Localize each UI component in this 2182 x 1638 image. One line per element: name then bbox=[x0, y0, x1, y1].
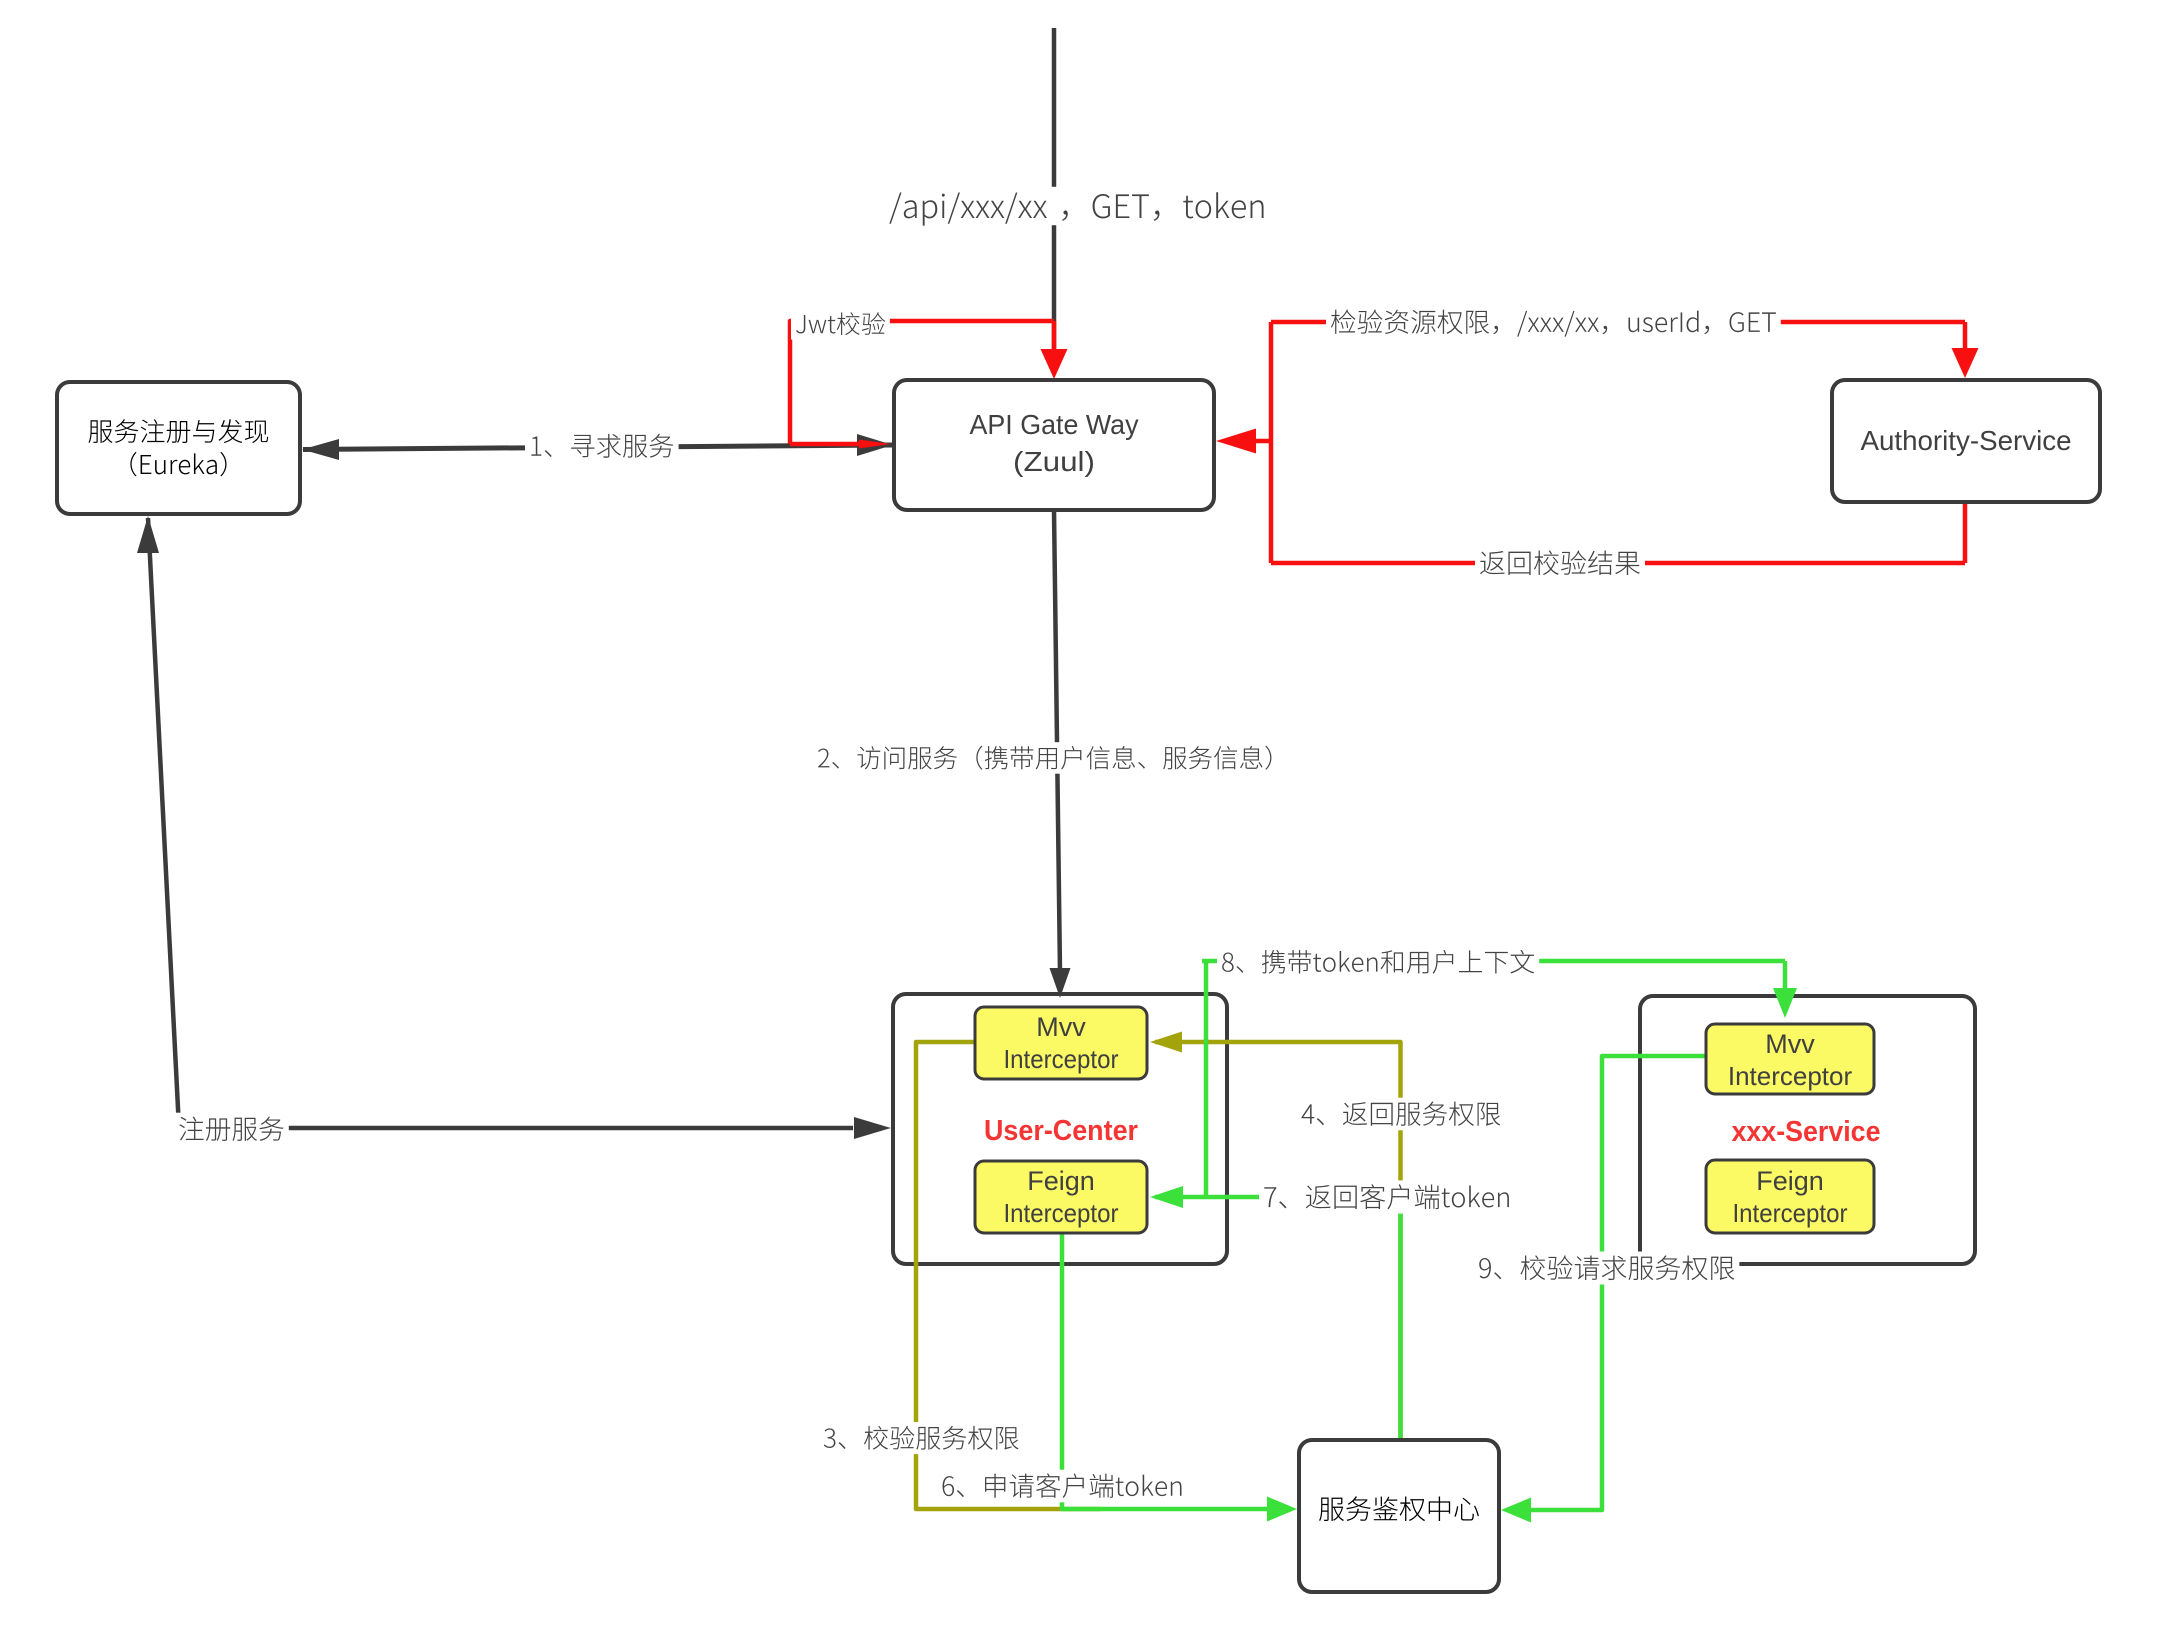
svg-text:API Gate Way: API Gate Way bbox=[970, 409, 1139, 440]
red stub + small red arrow at gateway left edge bbox=[790, 440, 891, 449]
wire: 8 carry token and user context (green) bbox=[1202, 961, 1785, 1197]
svg-text:xxx-Service: xxx-Service bbox=[1732, 1116, 1881, 1148]
box: UC Feign Interceptor bbox=[975, 1161, 1147, 1233]
arrow up into eureka bottom bbox=[137, 516, 159, 553]
label: 4 return service permission bbox=[1297, 1098, 1505, 1131]
wire: 3 check service permission (olive, uc-mvv to authcenter) bbox=[916, 1042, 1100, 1509]
wire: 7 return client token (green) bbox=[1155, 1197, 1401, 1440]
red arrow left into gateway right edge bbox=[1216, 429, 1271, 454]
red arrow down into gateway top bbox=[1041, 321, 1068, 379]
svg-text:Mvv: Mvv bbox=[1036, 1012, 1086, 1042]
svg-text:Interceptor: Interceptor bbox=[1004, 1198, 1119, 1228]
green arrow right into authcenter left edge bbox=[1267, 1497, 1297, 1522]
arrow into user-center top bbox=[1050, 968, 1071, 998]
wire: register service (user-center to eureka) bbox=[148, 518, 853, 1128]
box: service registry Eureka bbox=[57, 382, 300, 514]
olive arrow left into uc-mvv right edge bbox=[1150, 1032, 1182, 1053]
label: 6 apply client token bbox=[937, 1470, 1188, 1503]
wire: 6 apply client token (green, uc-feign to authcenter) bbox=[1062, 1233, 1290, 1509]
wire: 9 verify request service permission (green, xxx-mvv to authcenter) bbox=[1528, 1056, 1706, 1510]
label: 2 access service bbox=[813, 742, 1294, 774]
label: api request bbox=[885, 187, 1271, 226]
label: return check result bbox=[1475, 547, 1645, 580]
wire: check resource permission (red, gateway to authority) bbox=[1271, 322, 1965, 563]
wire: return check result (red, authority to gateway) bbox=[1271, 502, 1965, 563]
green arrow left into uc-feign right edge bbox=[1150, 1186, 1183, 1208]
box: API Gate Way (Zuul) bbox=[894, 380, 1214, 510]
svg-text:Interceptor: Interceptor bbox=[1733, 1198, 1848, 1228]
green arrow left into authcenter right edge bbox=[1501, 1498, 1531, 1523]
box: UC Mvv Interceptor bbox=[975, 1007, 1147, 1079]
svg-text:User-Center: User-Center bbox=[984, 1115, 1138, 1147]
box: Authority-Service bbox=[1832, 380, 2100, 502]
svg-text:Feign: Feign bbox=[1027, 1166, 1095, 1196]
arrow (black) into gateway left edge bbox=[857, 434, 893, 456]
wire: 2 access service (gateway down to user-center) bbox=[1054, 510, 1060, 972]
wire: 4 return service permission (olive, authcenter to uc-mvv) bbox=[1155, 1042, 1401, 1440]
svg-text:(Zuul): (Zuul) bbox=[1013, 446, 1095, 477]
label: check resource permission bbox=[1326, 306, 1781, 339]
svg-text:Mvv: Mvv bbox=[1765, 1029, 1815, 1059]
arrow right into user-center left edge bbox=[854, 1117, 891, 1139]
svg-text:Interceptor: Interceptor bbox=[1728, 1061, 1853, 1091]
box: User-Center container bbox=[893, 994, 1227, 1264]
box: xxx-Service container bbox=[1640, 996, 1975, 1264]
svg-text:Authority-Service: Authority-Service bbox=[1861, 425, 2072, 456]
wire: jwt check loop (red) bbox=[790, 321, 1054, 444]
svg-text:Feign: Feign bbox=[1756, 1166, 1824, 1196]
box: service auth center bbox=[1299, 1440, 1499, 1592]
label: 3 check service permission bbox=[819, 1422, 1024, 1454]
label: User-Center (red) bbox=[984, 1115, 1138, 1147]
svg-text:Interceptor: Interceptor bbox=[1004, 1044, 1119, 1074]
label: jwt check bbox=[791, 309, 890, 340]
red arrow down into authority top bbox=[1952, 322, 1979, 378]
green arrow down into xxx-mvv top bbox=[1773, 961, 1797, 1018]
wire: client request vertical into gateway bbox=[1052, 28, 1057, 362]
label: 7 return client token bbox=[1259, 1180, 1515, 1213]
label: 1 seek service bbox=[525, 430, 679, 462]
label: xxx-Service (red) bbox=[1732, 1116, 1881, 1148]
box: xxx Mvv Interceptor bbox=[1706, 1024, 1874, 1094]
box: xxx Feign Interceptor bbox=[1706, 1160, 1874, 1233]
wire: 1 seek service (gateway to eureka) bbox=[303, 445, 894, 450]
arrow into eureka right edge bbox=[302, 439, 339, 460]
label: 8 carry token and user context bbox=[1217, 946, 1539, 978]
label: 9 verify request service permission bbox=[1474, 1252, 1739, 1285]
label: register service bbox=[174, 1113, 289, 1146]
